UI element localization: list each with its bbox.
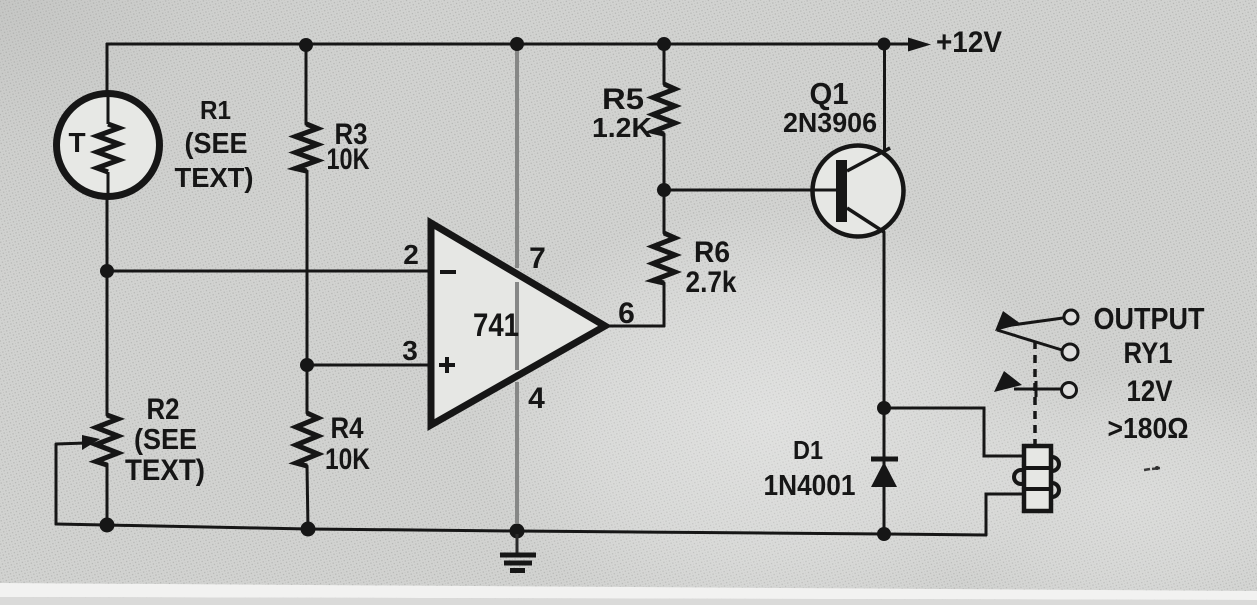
svg-text:R2: R2 xyxy=(147,393,180,426)
svg-text:+12V: +12V xyxy=(936,26,1002,59)
svg-text:7: 7 xyxy=(529,242,546,275)
svg-text:1N4001: 1N4001 xyxy=(764,470,856,502)
svg-text:R6: R6 xyxy=(694,236,730,269)
svg-text:>180Ω: >180Ω xyxy=(1108,413,1189,445)
svg-text:2.7k: 2.7k xyxy=(686,266,737,299)
svg-text:2: 2 xyxy=(403,239,419,270)
svg-text:TEXT): TEXT) xyxy=(125,454,205,487)
svg-text:10K: 10K xyxy=(325,443,370,476)
svg-text:4: 4 xyxy=(528,382,545,415)
svg-text:6: 6 xyxy=(618,297,635,330)
svg-text:TEXT): TEXT) xyxy=(175,162,254,193)
svg-text:2N3906: 2N3906 xyxy=(783,107,877,138)
svg-text:Q1: Q1 xyxy=(810,76,849,111)
svg-text:R4: R4 xyxy=(331,412,364,445)
svg-text:(SEE: (SEE xyxy=(185,128,248,160)
svg-text:OUTPUT: OUTPUT xyxy=(1094,301,1205,336)
svg-text:RY1: RY1 xyxy=(1124,337,1173,370)
svg-text:10K: 10K xyxy=(327,143,370,176)
svg-text:12V: 12V xyxy=(1127,375,1173,408)
svg-text:3: 3 xyxy=(402,335,418,366)
svg-text:R1: R1 xyxy=(200,95,231,125)
svg-text:(SEE: (SEE xyxy=(134,424,197,456)
svg-text:741: 741 xyxy=(473,307,519,343)
svg-text:D1: D1 xyxy=(793,435,823,465)
svg-text:1.2K: 1.2K xyxy=(592,112,652,143)
svg-text:T: T xyxy=(68,127,85,158)
